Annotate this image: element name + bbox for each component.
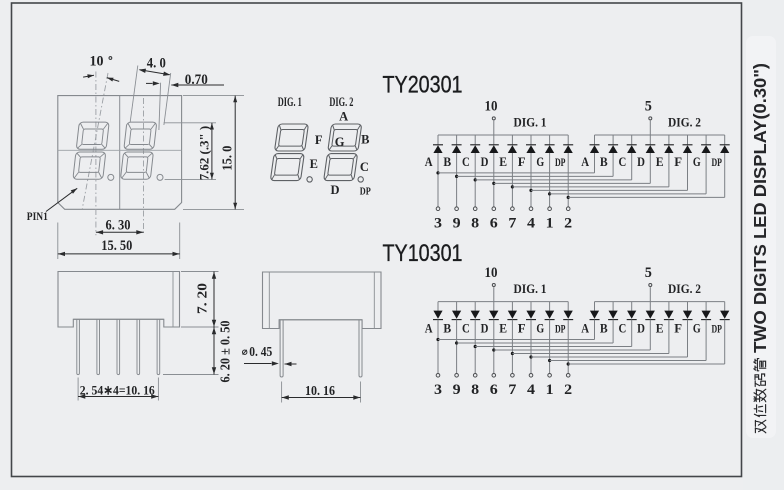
wire bus riser DIG.2-F TY10301 [687,302,689,311]
wire cathode column DIG.1-D to pin 6 TY20301 [493,153,495,207]
wire DIG.2-E to DIG.1-E TY10301 [512,353,669,355]
wire DIG.2-DP to DIG.1-DP TY10301 [568,363,725,365]
dimension 7.62(.3in) line with arrows [211,123,213,180]
LED diode DIG.2-G TY20301 [701,145,711,153]
wire cathode column DIG.1-DP to pin 2 TY20301 [567,153,569,207]
wire bus riser DIG.1-F TY20301 [530,135,532,144]
junction node DIG.1-F TY10301 [529,355,532,358]
junction node DIG.1-E TY20301 [511,185,514,188]
corner bevels of lower (D,C,E,G) of front digit 1 [74,153,104,177]
LED diode DIG.2-C TY10301 [627,311,637,320]
junction node DIG.1-DP TY10301 [567,362,570,365]
svg-text:A: A [339,109,348,123]
wire bus riser DIG.2-DP TY10301 [724,302,726,311]
svg-text:E: E [656,320,664,335]
dimension 4.0 extension slant lines over digit 2 [130,66,138,123]
LED diode DIG.2-A TY20301 [590,145,600,153]
wire DIG.2-A to DIG.1-A TY10301 [438,339,595,341]
LED diode DIG.2-D TY10301 [645,311,655,320]
svg-text:D: D [330,183,339,197]
wire bus riser DIG.2-C TY10301 [631,302,633,311]
wire DIG.2-D drop TY10301 [649,320,651,350]
dimension 4.0 line with arrows [140,70,170,75]
front view: center divider line between digits [119,96,121,210]
wire bus riser DIG.1-G TY20301 [549,135,551,144]
pin 10 terminal circle TY20301 [492,117,495,120]
svg-text:A: A [425,320,433,335]
wire cathode column DIG.1-C to pin 8 TY20301 [474,153,476,207]
lower (D,C,E,G) half outline of diagram DIG.2 [324,154,358,181]
pin terminal circle 3 TY10301 [436,374,440,378]
pin terminal circle 4 TY10301 [529,374,533,378]
svg-text:TWO DIGITS LED DISPLAY(0.30"): TWO DIGITS LED DISPLAY(0.30") [750,63,770,353]
svg-text:4: 4 [527,382,536,398]
front view: digit 2 vertical centerline [143,98,145,235]
side view A: pin 5 [157,319,160,374]
side view B: inner edge lines [268,272,270,329]
svg-text:DP: DP [555,157,566,169]
front view: 7-segment digit 1 outline [73,122,109,179]
LED diode DIG.1-B TY10301 [452,311,462,320]
front view: digit 1 slanted axis centerline (10 deg) [82,73,108,209]
junction node DIG.1-B TY20301 [455,175,458,178]
pin 5 terminal circle TY10301 [649,284,652,287]
side view A: bottom recess line [73,318,164,320]
wire DIG.2-C drop TY20301 [631,153,633,180]
junction node DIG.1-D TY20301 [492,182,495,185]
LED diode DIG.1-D TY20301 [489,145,499,153]
corner bevels of lower (D,C,E,G) of front digit 2 [122,153,152,177]
side view B: bottom recess line [279,319,362,321]
dimension 15.0 extension lines [183,95,244,97]
wire bus riser DIG.2-G TY20301 [705,135,707,144]
dimension 0.70 extension slant line [159,83,161,130]
svg-text:4. 0: 4. 0 [147,56,166,72]
wire DIG.2-DP to DIG.1-DP TY20301 [568,196,725,198]
wire bus riser DIG.2-G TY10301 [705,302,707,311]
wire bus riser DIG.1-DP TY20301 [567,135,569,144]
svg-text:7.62 (.3" ): 7.62 (.3" ) [197,126,212,181]
svg-text:F: F [674,320,682,335]
wire bus riser DIG.1-A TY20301 [437,135,439,144]
LED diode DIG.1-C TY20301 [470,145,480,153]
svg-text:C: C [360,160,369,174]
wire pin10 to bus DIG.1 TY20301 [493,121,495,136]
wire DIG.2-F drop TY20301 [687,153,689,190]
LED diode DIG.2-B TY20301 [608,145,618,153]
lower (D,C,E,G) half outline of diagram DIG.1 [270,154,304,181]
junction node DIG.1-E TY10301 [511,352,514,355]
upper (A,B,F,G) half outline of diagram DIG.1 [274,124,308,151]
CJK character 位 (wei) of vertical title [754,405,766,417]
wire cathode column DIG.1-F to pin 4 TY10301 [530,320,532,374]
lower (D,C,E,G) half outline of front digit 1 [73,152,106,179]
svg-text:C: C [619,320,627,335]
svg-text:F: F [518,320,526,335]
lower (D,C,E,G) inner window of diagram DIG.1 [274,159,300,176]
svg-text:5: 5 [645,265,652,281]
svg-text:A: A [425,154,433,169]
svg-text:TY20301: TY20301 [383,71,463,98]
wire bus riser DIG.1-C TY10301 [474,302,476,311]
wire cathode column DIG.1-G to pin 1 TY10301 [549,320,551,374]
svg-text:7. 20: 7. 20 [195,283,210,314]
side view B: front pin [280,320,283,377]
LED diode DIG.1-DP TY10301 [563,311,573,320]
CJK character 管 (guan) of vertical title [754,359,766,371]
svg-text:6. 30: 6. 30 [106,218,131,234]
CJK character 数 (shu) of vertical title [754,389,766,402]
dimension 15.50 extension lines [57,223,59,260]
wire DIG.2-A drop TY20301 [594,153,596,173]
wire DIG.2-E to DIG.1-E TY20301 [512,186,669,188]
wire bus riser DIG.2-B TY20301 [612,135,614,144]
LED diode DIG.2-E TY20301 [664,145,674,153]
dimension 2.54*4=10.16 line with arrows [78,396,158,398]
wire DIG.2-G to DIG.1-G TY10301 [550,360,707,362]
side view A: pin 1 [77,319,80,374]
wire DIG.2-D to DIG.1-D TY20301 [494,182,651,184]
side view B: package body outline [263,272,382,329]
common bus DIG.1 TY20301 [438,134,568,136]
upper (A,B,F,G) inner window of diagram DIG.2 [332,130,358,147]
lower (D,C,E,G) inner window of front digit 2 [126,157,148,173]
wire bus riser DIG.2-E TY10301 [668,302,670,311]
svg-text:F: F [518,154,526,169]
wire cathode column DIG.1-B to pin 9 TY20301 [456,153,458,207]
wire cathode column DIG.1-DP to pin 2 TY10301 [567,320,569,374]
lower (D,C,E,G) half outline of front digit 2 [120,152,153,179]
svg-text:B: B [361,132,369,146]
side view A: pin 2 [97,319,100,374]
lower (D,C,E,G) inner window of front digit 1 [79,157,101,173]
corner bevels of upper (A,B,F,G) of diagram DIG.2 [329,125,360,149]
pin terminal circle 9 TY20301 [455,207,459,211]
svg-text:3: 3 [434,382,442,398]
CJK character 双 (shuang) of vertical title [755,420,765,433]
common bus DIG.2 TY10301 [595,301,725,303]
svg-text:0.70: 0.70 [185,72,208,88]
wire DIG.2-DP drop TY20301 [724,153,726,197]
svg-text:7: 7 [508,382,517,398]
corner bevels of upper (A,B,F,G) of front digit 2 [125,124,155,148]
front view: decimal point digit 2 [157,174,163,180]
dimension phi 0.45 arrows [244,363,272,365]
svg-text:B: B [443,320,451,335]
pin terminal circle 1 TY20301 [548,207,552,211]
LED diode DIG.2-D TY20301 [645,145,655,153]
LED diode DIG.1-F TY10301 [526,311,536,320]
junction node DIG.1-A TY20301 [436,171,439,174]
svg-text:10: 10 [90,54,104,70]
wire bus riser DIG.1-DP TY10301 [567,302,569,311]
junction node DIG.1-D TY10301 [492,348,495,351]
pin terminal circle 8 TY10301 [473,374,477,378]
wire bus riser DIG.1-C TY20301 [474,135,476,144]
front view: horizontal mid construction line [58,149,182,151]
wire DIG.2-G to DIG.1-G TY20301 [550,193,707,195]
corner bevels of lower (D,C,E,G) of diagram DIG.2 [325,155,356,179]
svg-text:9: 9 [453,382,461,398]
LED diode DIG.2-G TY10301 [701,311,711,320]
corner bevels of upper (A,B,F,G) of diagram DIG.1 [276,125,307,149]
svg-text:DP: DP [711,323,722,335]
front view: digit 1 vertical centerline [95,72,97,236]
svg-text:5: 5 [645,98,652,114]
wire DIG.2-D drop TY20301 [649,153,651,183]
svg-text:DP: DP [555,323,566,335]
svg-text:B: B [600,320,608,335]
junction node DIG.1-G TY10301 [548,359,551,362]
svg-text:B: B [600,154,608,169]
common bus DIG.2 TY20301 [595,134,725,136]
dimension 6.30 line with arrows [96,231,144,233]
svg-text:B: B [443,154,451,169]
dimension 6.20 +/- 0.50 extension line [163,374,219,376]
wire DIG.2-B to DIG.1-B TY10301 [457,342,613,344]
lower (D,C,E,G) inner window of diagram DIG.2 [328,159,354,176]
LED diode DIG.2-E TY10301 [664,311,674,320]
pin terminal circle 9 TY10301 [455,374,459,378]
dimension 7.20 line with arrows [213,272,215,328]
pin terminal circle 8 TY20301 [473,207,477,211]
svg-text:C: C [462,154,470,169]
dimension 7.20 extension lines [181,271,219,273]
svg-text:DIG. 1: DIG. 1 [278,94,302,109]
wire DIG.2-E drop TY20301 [668,153,670,187]
LED diode DIG.1-B TY20301 [452,145,462,153]
LED diode DIG.2-F TY20301 [683,145,693,153]
svg-text:10: 10 [485,265,498,281]
upper (A,B,F,G) half outline of front digit 1 [76,122,109,149]
dimension 10.16 line with arrows [282,397,361,399]
side view A: package body outline [58,272,180,328]
wire bus riser DIG.1-E TY10301 [511,302,513,311]
wire DIG.2-F to DIG.1-F TY20301 [531,189,688,191]
wire DIG.2-F drop TY10301 [687,320,689,357]
corner bevels of upper (A,B,F,G) of front digit 1 [78,124,108,148]
upper (A,B,F,G) inner window of front digit 1 [82,129,104,145]
svg-text:E: E [499,154,507,169]
svg-text:D: D [481,320,489,335]
svg-text:DIG. 1: DIG. 1 [514,281,547,296]
wire DIG.2-A to DIG.1-A TY20301 [438,172,595,174]
svg-text:F: F [674,154,682,169]
side view A: inner edge line [172,272,174,328]
LED diode DIG.1-E TY20301 [507,145,517,153]
junction node DIG.1-DP TY20301 [567,196,570,199]
LED diode DIG.1-G TY20301 [545,145,555,153]
svg-text:4: 4 [527,215,536,231]
LED diode DIG.1-DP TY20301 [563,145,573,153]
svg-text:DIG. 2: DIG. 2 [668,281,701,296]
svg-text:E: E [310,157,318,171]
wire bus riser DIG.1-F TY10301 [530,302,532,311]
svg-text:PIN1: PIN1 [27,209,48,223]
LED diode DIG.2-F TY10301 [683,311,693,320]
title strip background band [743,0,784,490]
svg-text:DIG. 2: DIG. 2 [329,94,353,109]
svg-text:3: 3 [434,215,442,231]
svg-text:6. 20 ± 0. 50: 6. 20 ± 0. 50 [218,320,233,382]
svg-text:1: 1 [546,382,554,398]
svg-text:D: D [637,320,645,335]
LED diode DIG.2-A TY10301 [590,311,600,320]
svg-text:F: F [315,133,323,147]
svg-text:G: G [536,154,544,169]
wire DIG.2-B drop TY20301 [612,153,614,176]
wire cathode column DIG.1-G to pin 1 TY20301 [549,153,551,207]
PIN1 leader arrow [71,188,78,193]
wire DIG.2-C to DIG.1-C TY20301 [475,179,632,181]
wire DIG.2-C drop TY10301 [631,320,633,347]
wire cathode column DIG.1-D to pin 6 TY10301 [493,320,495,374]
front view: package outline [58,96,182,210]
LED diode DIG.2-B TY10301 [608,311,618,320]
pin 5 terminal circle TY20301 [649,117,652,120]
upper (A,B,F,G) half outline of diagram DIG.2 [328,124,362,151]
junction node DIG.1-F TY20301 [529,189,532,192]
segment diagram digit DIG.2 outline [324,124,362,181]
wire cathode column DIG.1-C to pin 8 TY10301 [474,320,476,374]
svg-text:TY10301: TY10301 [383,240,463,267]
wire DIG.2-C to DIG.1-C TY10301 [475,346,632,348]
svg-text:G: G [536,320,544,335]
wire DIG.2-B to DIG.1-B TY20301 [457,175,613,177]
svg-text:C: C [462,320,470,335]
wire DIG.2-DP drop TY10301 [724,320,726,364]
LED diode DIG.2-DP TY20301 [720,145,730,153]
dimension 15.0 line with arrows [234,96,236,210]
wire cathode column DIG.1-F to pin 4 TY20301 [530,153,532,207]
LED diode DIG.1-D TY10301 [489,311,499,320]
junction node DIG.1-C TY10301 [474,345,477,348]
wire DIG.2-G drop TY20301 [705,153,707,194]
pin terminal circle 1 TY10301 [548,374,552,378]
segment diagram digit DIG.1 outline [270,124,308,181]
segment diagram DIG.1 decimal point [307,177,312,182]
pin terminal circle 7 TY10301 [511,374,515,378]
wire cathode column DIG.1-B to pin 9 TY10301 [456,320,458,374]
svg-text:DP: DP [360,186,371,198]
wire bus riser DIG.2-C TY20301 [631,135,633,144]
wire bus riser DIG.2-A TY10301 [594,302,596,311]
junction node DIG.1-B TY10301 [455,341,458,344]
dimension phi 0.45 label [243,350,247,354]
junction node DIG.1-G TY20301 [548,192,551,195]
wire DIG.2-E drop TY10301 [668,320,670,354]
pin terminal circle 2 TY20301 [566,207,570,211]
front view: decimal point digit 1 [108,174,114,180]
svg-text:C: C [619,154,627,169]
wire DIG.2-D to DIG.1-D TY10301 [494,349,651,351]
svg-text:G: G [693,320,701,335]
svg-text:2: 2 [564,215,572,231]
wire bus riser DIG.1-B TY10301 [456,302,458,311]
upper (A,B,F,G) inner window of front digit 2 [129,129,151,145]
junction node DIG.1-A TY10301 [436,338,439,341]
upper (A,B,F,G) inner window of diagram DIG.1 [278,130,304,147]
LED diode DIG.1-G TY10301 [545,311,555,320]
wire bus riser DIG.2-B TY10301 [612,302,614,311]
svg-text:A: A [581,320,589,335]
wire DIG.2-F to DIG.1-F TY10301 [531,356,688,358]
dimension 10.16 extension lines [281,382,283,403]
wire bus riser DIG.1-B TY20301 [456,135,458,144]
svg-text:E: E [656,154,664,169]
pin terminal circle 7 TY20301 [511,207,515,211]
wire bus riser DIG.1-D TY10301 [493,302,495,311]
svg-text:D: D [637,154,645,169]
svg-text:6: 6 [490,215,498,231]
wire pin5 to bus DIG.2 TY10301 [649,287,651,302]
svg-text:6: 6 [490,382,498,398]
side view A: pin 4 [137,319,140,374]
svg-text:15. 50: 15. 50 [101,238,132,254]
dimension 15.50 line with arrows [58,253,180,255]
wire bus riser DIG.2-D TY10301 [649,302,651,311]
side view B: rear pin [359,320,362,377]
upper (A,B,F,G) half outline of front digit 2 [124,122,157,149]
svg-text:7: 7 [508,215,517,231]
dimension 10 deg arrows [87,74,94,78]
wire bus riser DIG.2-D TY20301 [649,135,651,144]
wire bus riser DIG.2-DP TY20301 [724,135,726,144]
wire cathode column DIG.1-E to pin 7 TY10301 [511,320,513,374]
LED diode DIG.2-DP TY10301 [720,311,730,320]
side view A: pin 3 [117,319,120,374]
svg-text:DIG. 1: DIG. 1 [514,115,547,130]
dimension 7.62(.3in) extension lines [164,122,216,124]
svg-text:1: 1 [546,215,554,231]
wire DIG.2-G drop TY10301 [705,320,707,361]
svg-text:DIG. 2: DIG. 2 [668,115,701,130]
svg-text:10: 10 [485,98,498,114]
wire bus riser DIG.1-E TY20301 [511,135,513,144]
dimension 0.70 arrows and leader [153,81,160,85]
wire bus riser DIG.1-G TY10301 [549,302,551,311]
wire bus riser DIG.1-A TY10301 [437,302,439,311]
LED diode DIG.1-A TY20301 [433,145,443,153]
wire DIG.2-A drop TY10301 [594,320,596,340]
LED diode DIG.1-C TY10301 [470,311,480,320]
wire pin5 to bus DIG.2 TY20301 [649,121,651,136]
junction node DIG.1-C TY20301 [474,178,477,181]
wire bus riser DIG.2-A TY20301 [594,135,596,144]
pin 10 terminal circle TY10301 [492,284,495,287]
wire cathode column DIG.1-A to pin 3 TY10301 [437,320,439,374]
LED diode DIG.1-E TY10301 [507,311,517,320]
svg-text:2. 54∗4=10. 16: 2. 54∗4=10. 16 [80,382,155,397]
svg-text:A: A [581,154,589,169]
svg-text:DP: DP [711,157,722,169]
svg-text:G: G [335,135,345,149]
pin terminal circle 2 TY10301 [566,374,570,378]
wire bus riser DIG.2-F TY20301 [687,135,689,144]
svg-text:E: E [499,320,507,335]
svg-text:8: 8 [471,382,479,398]
wire cathode column DIG.1-A to pin 3 TY20301 [437,153,439,207]
pin terminal circle 6 TY20301 [492,207,496,211]
svg-text:9: 9 [453,215,461,231]
pin terminal circle 6 TY10301 [492,374,496,378]
pin terminal circle 4 TY20301 [529,207,533,211]
svg-text:15. 0: 15. 0 [219,145,234,170]
dimension 6.20 +/- 0.50 line with arrows [213,327,215,375]
wire DIG.2-B drop TY10301 [612,320,614,343]
svg-text:10. 16: 10. 16 [305,383,335,398]
svg-text:G: G [693,154,701,169]
